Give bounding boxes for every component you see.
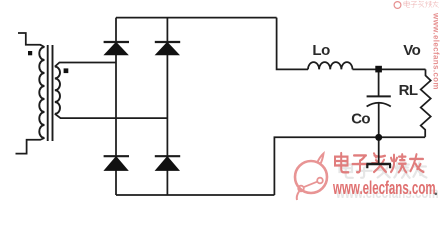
wire Lo to node A and RL top: [353, 68, 426, 70]
capacitor Co curved bottom plate: [367, 103, 391, 107]
watermark red cjk text bottom-right: [335, 153, 424, 172]
period dot after url: [435, 193, 438, 196]
transformer T1 primary winding: [39, 47, 44, 138]
node B junction dot: [375, 134, 382, 141]
wire secondary top terminal to bridge left leg: [55, 63, 116, 67]
wire Co bottom to node B: [378, 104, 380, 138]
diode D4: [155, 156, 181, 171]
wire negative return from bridge bottom to RL bottom: [274, 137, 425, 195]
transformer T1 primary bottom terminal wire: [16, 138, 45, 154]
wire positive output from bridge top to Lo: [277, 18, 308, 70]
diode D2: [155, 42, 181, 55]
transformer primary polarity dot: [28, 51, 32, 55]
inductor Lo: [308, 62, 352, 69]
wire bridge right leg: [166, 18, 168, 195]
transformer secondary polarity dot: [64, 68, 69, 73]
transformer T1 secondary winding: [55, 67, 60, 114]
svg-text:RL: RL: [399, 82, 418, 99]
ground: [366, 164, 391, 168]
wire secondary bottom terminal to bridge right leg: [55, 114, 168, 118]
transformer T1 core: [48, 45, 53, 141]
watermark small red cjk text top-right: [404, 1, 438, 8]
watermark small logo top-right: [394, 2, 401, 9]
resistor RL: [421, 69, 431, 136]
node A junction dot: [375, 66, 382, 73]
svg-text:www.elecfans.com: www.elecfans.com: [332, 178, 435, 198]
wire bridge top rail: [116, 17, 277, 19]
capacitor Co top plate: [367, 95, 391, 97]
wire node B to ground: [378, 137, 380, 163]
diode D3: [103, 156, 129, 171]
svg-text:www.elecfans.com: www.elecfans.com: [432, 12, 440, 90]
watermark logo bottom-right: [295, 154, 327, 201]
diode D1: [103, 42, 129, 55]
svg-text:Vo: Vo: [403, 42, 420, 59]
svg-text:Co: Co: [351, 111, 370, 128]
transformer T1 primary top terminal wire: [18, 33, 45, 47]
wire bridge left leg: [115, 18, 117, 195]
watermark embossed gray shadow bottom-right: [335, 162, 438, 202]
svg-text:Lo: Lo: [312, 42, 330, 59]
wire node A to Co top: [378, 69, 380, 95]
wire bridge bottom rail: [116, 194, 274, 196]
